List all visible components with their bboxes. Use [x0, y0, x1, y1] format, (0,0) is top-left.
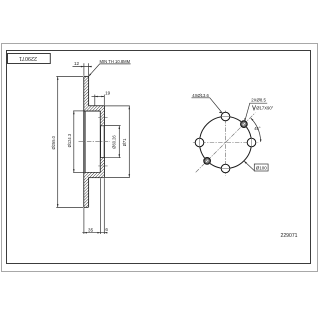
arrow 12 right — [89, 66, 92, 68]
disc outboard face — [83, 77, 85, 208]
axis centerline — [79, 141, 111, 143]
arrow 6 right — [104, 232, 107, 234]
ext bore upper — [105, 125, 121, 127]
ext 12 left — [83, 63, 85, 76]
svg-text:19: 19 — [105, 91, 111, 96]
dim line D255 — [57, 77, 59, 208]
svg-text:Ø255.0: Ø255.0 — [51, 135, 56, 149]
leader PCD — [244, 161, 254, 170]
svg-text:4XØ13.6: 4XØ13.6 — [192, 93, 209, 98]
svg-text:Ø124.3: Ø124.3 — [67, 133, 72, 147]
threaded hole upper right — [241, 121, 248, 128]
arrow D255 bottom — [57, 204, 59, 207]
hat drum inner upper edge — [84, 110, 101, 112]
arrow 35 right — [97, 232, 100, 234]
ext hat OD bottom — [105, 177, 130, 179]
dim line D60.26 — [118, 126, 120, 158]
horizontal centerline — [193, 142, 258, 144]
center bore upper edge — [100, 125, 104, 127]
ext 19 right — [103, 95, 105, 106]
ext D124.3 top — [73, 110, 83, 112]
hatch flange lower — [101, 158, 104, 173]
svg-text:229071: 229071 — [19, 55, 37, 61]
arrow D60.26 top — [119, 126, 121, 129]
svg-text:229071: 229071 — [281, 233, 298, 239]
hatch shoulder lower — [84, 173, 104, 178]
leader MIN TH — [89, 64, 131, 76]
arrow 35 left — [84, 232, 87, 234]
ext 35/6 mid — [99, 178, 101, 234]
arrow 19 left — [95, 96, 98, 98]
friction ring inboard face lower — [88, 178, 90, 208]
svg-text:Ø71: Ø71 — [122, 138, 127, 146]
hatch flange upper — [101, 111, 104, 126]
stud hole top — [221, 112, 230, 121]
stud hole right — [247, 138, 256, 147]
ext hat OD top — [105, 105, 130, 107]
leader 4X holes — [192, 98, 223, 113]
dim line 19 — [92, 96, 105, 98]
ext 12 right — [88, 63, 90, 76]
ext 35 left — [83, 208, 85, 235]
dim line 12 — [73, 66, 92, 68]
ext 19 left — [94, 95, 96, 106]
leader 2X holes — [245, 103, 267, 121]
dim line hat OD — [128, 106, 130, 178]
PCD label box — [254, 164, 268, 171]
hatch friction ring lower — [84, 178, 88, 207]
friction ring inboard face upper — [88, 77, 90, 106]
arrow D124.3 bottom — [73, 169, 75, 172]
sheet outer border — [2, 44, 318, 272]
bolt circle — [200, 117, 252, 169]
arrow D255 top — [57, 77, 59, 80]
OD extension line bottom — [56, 206, 83, 208]
diagonal centerline — [196, 113, 256, 173]
flange inner face — [99, 111, 101, 173]
drawing frame — [7, 51, 311, 264]
arrow D60.26 bottom — [119, 154, 121, 157]
vertical centerline — [225, 111, 227, 176]
arrow hat OD top — [129, 106, 131, 109]
mounting face — [103, 106, 105, 178]
angle dim arc 45 — [251, 118, 261, 142]
title box — [8, 54, 51, 64]
friction ring top edge — [84, 76, 89, 78]
svg-text:45°: 45° — [254, 126, 261, 131]
hat drum inner lower edge — [84, 172, 101, 174]
arrow MIN TH leader — [89, 74, 92, 77]
dim line 35 and 6 — [82, 232, 107, 234]
svg-text:12: 12 — [74, 61, 80, 66]
svg-text:MIN TH 10.8MM: MIN TH 10.8MM — [100, 59, 131, 64]
friction ring bottom edge — [84, 206, 89, 208]
arrow 19 right — [101, 96, 104, 98]
countersink symbol — [252, 105, 255, 110]
ext 6 right — [103, 178, 105, 234]
arrow 12 left — [81, 66, 84, 68]
dim line D124.3 — [73, 111, 75, 173]
threaded hole lower left — [204, 158, 211, 165]
ext D124.3 bottom — [73, 172, 83, 174]
stud hole bottom — [221, 164, 230, 173]
hatch shoulder upper — [84, 106, 104, 110]
hatch friction ring upper — [84, 77, 88, 106]
svg-text:Ø100: Ø100 — [256, 165, 268, 170]
stud hole centerline lower — [98, 165, 107, 167]
stud hole centerline upper — [98, 116, 107, 118]
stud hole left — [195, 138, 204, 147]
svg-text:35: 35 — [88, 227, 94, 232]
svg-text:Ø60.26: Ø60.26 — [111, 135, 116, 149]
arrows left view — [57, 66, 130, 234]
svg-text:Ø17X90°: Ø17X90° — [256, 105, 273, 110]
OD extension line top — [56, 76, 83, 78]
hat shoulder bottom edge — [89, 177, 105, 179]
ext bore lower — [105, 157, 121, 159]
hat shoulder top edge — [89, 105, 105, 107]
svg-text:2XØ8.5: 2XØ8.5 — [251, 98, 266, 103]
outboard wall inner line — [84, 111, 86, 173]
arrow D124.3 top — [73, 111, 75, 114]
svg-text:6: 6 — [105, 227, 108, 232]
arrow hat OD bottom — [129, 174, 131, 177]
center bore lower edge — [100, 157, 104, 159]
